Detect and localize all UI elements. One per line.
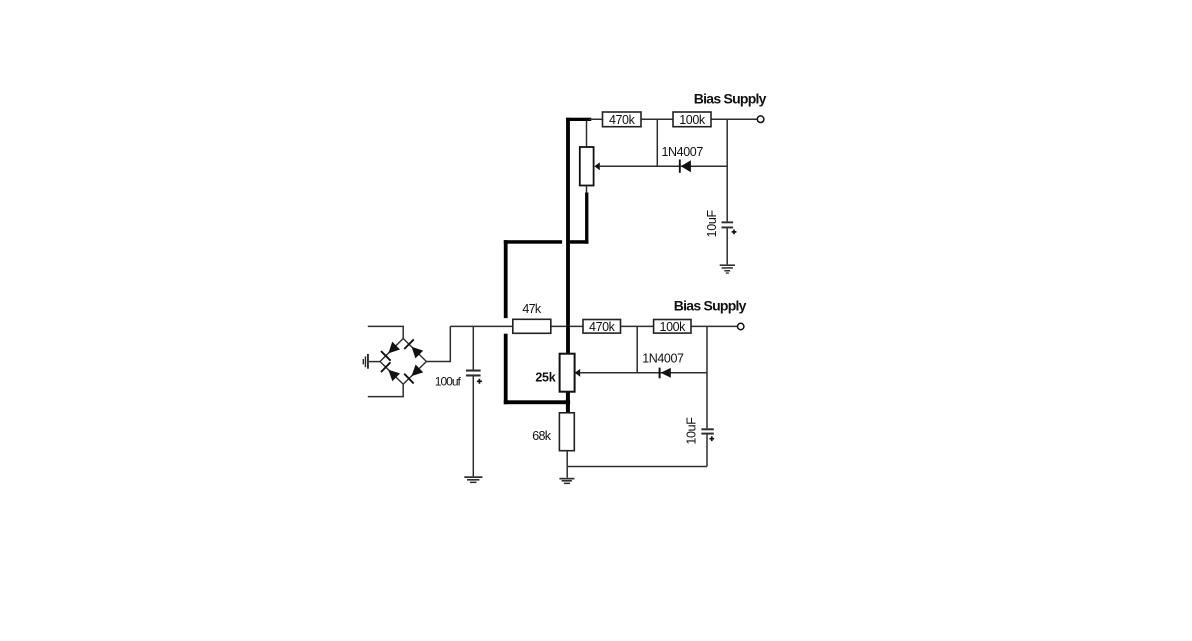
svg-text:100uf: 100uf bbox=[435, 374, 462, 388]
svg-text:100k: 100k bbox=[679, 113, 706, 127]
thick wire 25k pot bottom lead bbox=[566, 392, 570, 413]
diode D6 1N4007 (middle) bbox=[660, 368, 671, 379]
capacitor C1 100uf bbox=[466, 326, 482, 476]
resistor R2 68k bbox=[559, 413, 574, 451]
resistor R6 100k bbox=[654, 320, 691, 334]
thick wire left vertical upper (gap at bus) bbox=[504, 240, 508, 318]
wire top rail bbox=[589, 118, 757, 120]
svg-text:10uF: 10uF bbox=[705, 209, 719, 237]
wire bridge output to bus bbox=[426, 326, 450, 361]
wire junction drop (top) bbox=[656, 119, 658, 166]
wire pot top lead (top) bbox=[586, 121, 588, 148]
thick wire link top horizontal bbox=[566, 118, 591, 121]
capacitor C2 10uF (top) bbox=[722, 221, 737, 264]
ground GND3 (below 68k) bbox=[559, 478, 574, 484]
wire middle rail bbox=[621, 325, 738, 327]
diode D4 (bridge bottom-right) bbox=[404, 364, 424, 384]
wire wiper line (top) bbox=[599, 165, 727, 167]
svg-text:25k: 25k bbox=[535, 371, 555, 385]
diode D1 (bridge top-left) bbox=[381, 341, 401, 361]
svg-text:10uF: 10uF bbox=[685, 417, 699, 445]
ground GND4 (top 10uF) bbox=[720, 264, 735, 273]
svg-text:Bias Supply: Bias Supply bbox=[694, 91, 767, 107]
terminal output (middle) bbox=[738, 323, 744, 329]
thick wire main vertical bbox=[566, 118, 570, 354]
wire main DC bus bbox=[450, 325, 583, 327]
resistor R5 470k bbox=[583, 320, 621, 334]
thick wire mid horizontal right part bbox=[570, 240, 589, 244]
capacitor C3 10uF (middle) bbox=[701, 428, 714, 466]
wire 68k bottom to ground and return bbox=[567, 451, 707, 478]
resistor R3 470k bbox=[603, 112, 642, 127]
wire AC input bottom bbox=[368, 384, 403, 396]
thick wire bottom horizontal bbox=[504, 400, 570, 404]
potentiometer VR1 25k bbox=[560, 354, 581, 392]
svg-text:1N4007: 1N4007 bbox=[642, 351, 684, 365]
svg-text:68k: 68k bbox=[532, 429, 552, 443]
svg-text:47k: 47k bbox=[522, 302, 542, 316]
wire wiper line (middle) bbox=[579, 372, 707, 374]
bridge rectifier BR1 diamond bbox=[380, 339, 426, 385]
svg-text:1N4007: 1N4007 bbox=[662, 145, 704, 159]
potentiometer VR2 (top) bbox=[580, 147, 600, 193]
thick wire mid horizontal left part bbox=[504, 240, 562, 244]
thick wire left vertical lower bbox=[504, 334, 508, 405]
svg-text:100k: 100k bbox=[660, 320, 687, 334]
ground GND2 (below 100uf) bbox=[464, 476, 482, 483]
thick wire pot bottom lead (top pot) bbox=[585, 193, 588, 244]
wire cap riser (middle) bbox=[706, 326, 708, 428]
terminal output (top) bbox=[757, 116, 764, 123]
wire cap riser (top) bbox=[726, 119, 728, 221]
svg-text:470k: 470k bbox=[609, 113, 636, 127]
resistor R4 100k bbox=[673, 112, 711, 127]
wire AC input top bbox=[368, 326, 403, 338]
wire junction drop (middle) bbox=[636, 326, 638, 372]
svg-text:470k: 470k bbox=[589, 320, 616, 334]
diode D3 (bridge bottom-left) bbox=[381, 362, 401, 382]
diode D5 1N4007 (top) bbox=[680, 160, 691, 173]
svg-text:Bias Supply: Bias Supply bbox=[674, 297, 747, 313]
diode D2 (bridge top-right) bbox=[404, 339, 424, 359]
ground GND1 (left of bridge, rotated) bbox=[363, 354, 381, 369]
resistor R1 47k bbox=[513, 319, 551, 333]
